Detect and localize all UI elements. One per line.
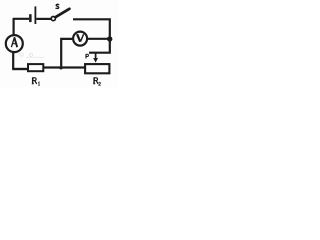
label A (drawn glyph) <box>11 37 17 47</box>
resistor R1: box <box>28 64 43 71</box>
rheostat R2: slider arrowhead <box>93 58 98 63</box>
switch S: lever arm <box>55 9 69 17</box>
label V (drawn glyph) <box>77 34 84 42</box>
label S <box>56 4 59 8</box>
battery cell: short thick plate <box>29 14 32 22</box>
wire: top-left horizontal (battery left lead) <box>13 18 29 20</box>
junction dot (voltmeter left drop meets bottom wire) <box>59 66 62 69</box>
voltmeter U-V: circle <box>73 32 87 46</box>
label R2 (drawn glyph) <box>93 77 101 85</box>
watermark smudge <box>20 53 44 58</box>
wire: left vertical bottom (ammeter to bottom wire) <box>12 52 14 69</box>
label P (drawn glyph) <box>86 54 88 58</box>
label R1 (drawn glyph) <box>32 77 40 85</box>
junction dot (voltmeter right lead meets right vertical wire) <box>107 36 112 41</box>
switch S: pivot circle <box>51 17 55 21</box>
battery cell: long thin plate <box>35 6 37 24</box>
wire: voltmeter left lead and drop to bottom wire <box>61 39 72 69</box>
rheostat R2: slider arrow shaft <box>95 54 97 59</box>
wire: voltmeter right lead <box>88 38 109 40</box>
ammeter U-A: circle <box>6 35 23 52</box>
wire: battery to switch pivot <box>36 18 51 20</box>
wire: switch to top-right corner, right vertical, slider feed line <box>73 19 110 52</box>
wire: bottom-left horizontal (to R1) <box>12 68 28 70</box>
wire: bottom horizontal R1 to R2 <box>43 66 85 68</box>
wire: left vertical top (top wire to ammeter) <box>13 18 15 35</box>
rheostat R2: box <box>85 64 109 73</box>
